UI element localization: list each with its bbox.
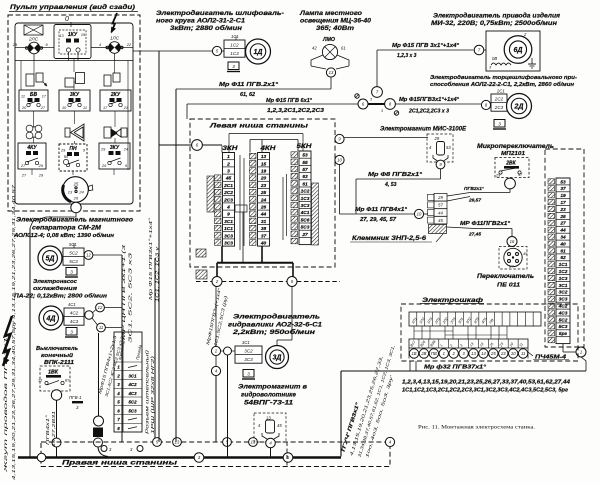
left bus wire — [29, 228, 31, 457]
svg-text:44: 44 — [559, 228, 566, 234]
lamp symbol — [322, 44, 337, 59]
junction below 1VK — [51, 390, 61, 400]
svg-text:1С2: 1С2 — [301, 189, 310, 195]
relay 3KU — [59, 90, 90, 111]
node 4edge — [385, 437, 394, 446]
svg-text:3: 3 — [381, 109, 383, 113]
svg-text:26: 26 — [260, 205, 267, 211]
svg-text:Левая ниша станины: Левая ниша станины — [209, 123, 309, 130]
svg-text:3КУ: 3КУ — [70, 92, 80, 98]
svg-text:способления АОЛ2-22-2-С1, 2,: способления АОЛ2-22-2-С1, 2,2кВт, 2860 о… — [430, 81, 575, 88]
svg-text:1С3: 1С3 — [230, 51, 239, 56]
svg-text:10: 10 — [337, 158, 342, 163]
svg-text:Электрошкаф: Электрошкаф — [422, 297, 483, 304]
svg-text:53: 53 — [446, 145, 451, 150]
svg-text:3С3: 3С3 — [301, 203, 310, 209]
svg-text:3: 3 — [370, 98, 372, 102]
bottom niche dashed box (Pravaya nisha) — [41, 442, 390, 467]
svg-text:27: 27 — [559, 221, 566, 227]
svg-text:ПЕ 011: ПЕ 011 — [497, 283, 520, 289]
horn symbol — [65, 128, 70, 137]
svg-text:25: 25 — [73, 182, 79, 187]
ground 2D — [493, 120, 506, 130]
tap — [101, 446, 107, 452]
svg-text:1: 1 — [580, 350, 582, 355]
svg-text:Электронасос: Электронасос — [33, 279, 78, 285]
cable direction arrow left edge — [3, 316, 12, 366]
svg-text:61: 61 — [341, 46, 346, 51]
svg-text:1С1: 1С1 — [559, 262, 568, 268]
svg-text:29: 29 — [38, 164, 44, 168]
svg-text:27: 27 — [21, 174, 27, 178]
node 4b — [266, 438, 276, 448]
svg-text:27: 27 — [301, 232, 308, 238]
wire 7 up — [376, 50, 378, 87]
ground 1D — [227, 62, 240, 72]
electromagnet MIS symbol — [427, 134, 453, 162]
wire node10 down — [339, 165, 341, 214]
svg-text:4С3: 4С3 — [127, 391, 137, 396]
node 16 — [507, 237, 517, 247]
svg-text:26: 26 — [73, 196, 79, 201]
node 10 — [335, 155, 344, 164]
svg-text:4: 4 — [226, 205, 230, 211]
svg-text:3С1: 3С1 — [242, 340, 250, 345]
svg-text:54ВПГ-73-11: 54ВПГ-73-11 — [244, 401, 294, 407]
svg-text:53: 53 — [560, 179, 566, 185]
svg-text:27, 29, 45, 57: 27, 29, 45, 57 — [359, 217, 397, 223]
svg-text:1: 1 — [443, 351, 445, 356]
svg-text:1,2,3 х 3: 1,2,3 х 3 — [397, 53, 417, 59]
svg-text:ПВ: ПВ — [431, 351, 437, 356]
svg-text:3С3: 3С3 — [224, 241, 233, 247]
node 8 — [385, 99, 396, 110]
svg-text:42: 42 — [312, 46, 317, 51]
motor 4D — [39, 306, 63, 330]
svg-text:3: 3 — [232, 64, 235, 69]
svg-text:гидроволотнике: гидроволотнике — [241, 393, 297, 399]
hatched connectors on left edge — [196, 249, 206, 257]
motor 6D box — [486, 31, 540, 71]
svg-text:22: 22 — [126, 43, 132, 47]
svg-text:20: 20 — [21, 106, 27, 110]
svg-text:Лампа местного: Лампа местного — [299, 10, 362, 17]
lamp 2LS — [24, 25, 43, 35]
svg-text:МП2101: МП2101 — [501, 151, 525, 157]
svg-text:Мр Ф15 ПГВ 6х1°: Мр Ф15 ПГВ 6х1° — [266, 98, 313, 104]
motor 1D — [224, 40, 245, 57]
svg-text:4С1: 4С1 — [300, 210, 310, 216]
svg-text:29: 29 — [100, 148, 106, 152]
node 2 — [212, 277, 222, 287]
svg-text:57: 57 — [302, 167, 308, 173]
svg-text:1ВК: 1ВК — [48, 370, 59, 376]
cable wire 2 — [187, 103, 358, 105]
svg-text:Розъем штепсельный: Розъем штепсельный — [145, 349, 150, 434]
svg-text:2С1: 2С1 — [223, 183, 233, 189]
svg-text:10: 10 — [417, 212, 422, 217]
svg-text:4, 53: 4, 53 — [384, 182, 397, 188]
junction 3D — [224, 347, 232, 355]
panel connector circle — [63, 177, 89, 203]
svg-text:3КН: 3КН — [223, 146, 239, 152]
svg-text:МР Ф11ПГВ2х1°: МР Ф11ПГВ2х1° — [460, 221, 511, 227]
svg-text:62: 62 — [560, 255, 566, 261]
svg-text:63: 63 — [302, 174, 308, 180]
svg-text:3С2: 3С2 — [559, 290, 568, 296]
control panel dashed border — [8, 15, 140, 211]
svg-text:21: 21 — [123, 106, 128, 110]
wire to MIS — [344, 137, 428, 139]
svg-text:17: 17 — [560, 200, 566, 206]
svg-text:34: 34 — [560, 235, 566, 241]
svg-text:23: 23 — [260, 183, 267, 189]
wire panel to 1D — [133, 50, 212, 52]
svg-text:4Д: 4Д — [46, 316, 56, 323]
left niche dashed box (Levaya nisha) — [190, 119, 335, 267]
svg-text:3кВт; 2880 об/мин: 3кВт; 2880 об/мин — [170, 25, 242, 32]
svg-text:25: 25 — [260, 190, 267, 196]
svg-text:АОЛ012-4; 0,08 кВт; 1390 об/ми: АОЛ012-4; 0,08 кВт; 1390 об/мин — [13, 232, 115, 239]
svg-text:0: 0 — [65, 16, 69, 23]
panel bus wire — [15, 60, 133, 62]
svg-text:ПГВ4х1°: ПГВ4х1° — [45, 414, 50, 445]
svg-text:3: 3 — [70, 269, 73, 274]
svg-text:19: 19 — [261, 169, 267, 175]
svg-text:1С1: 1С1 — [224, 226, 233, 232]
svg-text:1С3: 1С3 — [559, 276, 568, 282]
svg-text:Электродвигатель привода издел: Электродвигатель привода изделия — [433, 13, 560, 20]
ground wire 3D down — [227, 355, 229, 457]
svg-text:1С1: 1С1 — [231, 34, 239, 39]
svg-text:29: 29 — [60, 149, 66, 153]
svg-text:Электромагнит в: Электромагнит в — [238, 384, 307, 391]
node 11 — [97, 323, 106, 332]
svg-text:3С2: 3С2 — [244, 348, 253, 353]
svg-text:5С3: 5С3 — [69, 259, 78, 264]
wire down from 1VK — [56, 400, 58, 438]
node 6 — [192, 140, 203, 151]
svg-text:Мр Ф15ПГВ3х1°+1х4°: Мр Ф15ПГВ3х1°+1х4° — [399, 97, 460, 103]
svg-text:45: 45 — [225, 176, 232, 182]
svg-text:25: 25 — [559, 214, 566, 220]
svg-text:0В: 0В — [492, 56, 497, 61]
svg-text:охлаждения: охлаждения — [33, 286, 78, 292]
svg-text:45: 45 — [277, 423, 282, 428]
motor 3D — [235, 346, 262, 363]
wire node12 down — [93, 254, 122, 256]
svg-text:12: 12 — [86, 253, 91, 258]
svg-text:25: 25 — [490, 351, 496, 356]
svg-text:4С3: 4С3 — [558, 310, 568, 316]
svg-text:10: 10 — [511, 351, 516, 356]
svg-text:27: 27 — [40, 106, 46, 110]
control panel inner frame — [15, 23, 133, 204]
terminal strip 4KN — [250, 153, 270, 247]
svg-text:4С3: 4С3 — [70, 319, 79, 324]
node 5b — [283, 453, 293, 463]
svg-text:5рг: 5рг — [559, 331, 568, 337]
svg-text:37: 37 — [560, 186, 566, 192]
svg-text:4С1: 4С1 — [68, 302, 76, 307]
panel wires verticals — [20, 61, 22, 91]
ground 3D — [242, 370, 255, 380]
svg-text:5С3: 5С3 — [128, 408, 137, 413]
connector block — [93, 428, 103, 438]
node 12 — [84, 251, 93, 260]
svg-text:2,2кВт; 950об/мин: 2,2кВт; 950об/мин — [232, 329, 316, 336]
svg-text:53: 53 — [302, 153, 308, 159]
svg-text:1ЛС: 1ЛС — [110, 36, 120, 41]
connector table (plug 1RSh) — [114, 332, 142, 432]
svg-text:29: 29 — [495, 174, 501, 178]
svg-text:4С2: 4С2 — [70, 310, 79, 315]
node 5a — [212, 46, 221, 55]
niche top connections — [221, 146, 223, 153]
svg-text:Электродвигатель торцешлифовал: Электродвигатель торцешлифовального при- — [430, 74, 577, 81]
niche inner thick bus — [217, 262, 293, 264]
svg-text:2С3: 2С3 — [223, 197, 233, 203]
svg-text:5С3: 5С3 — [559, 324, 568, 330]
svg-text:23: 23 — [559, 207, 566, 213]
svg-text:1С1,1С2,1С3,2С1,2С2,2С3,3С1,3С: 1С1,1С2,1С3,2С1,2С2,2С3,3С1,3С2,3С3,4С2,… — [402, 388, 568, 394]
svg-text:3С1, 5С2, 5С3 х3: 3С1, 5С2, 5С3 х3 — [128, 252, 133, 343]
svg-text:1Д: 1Д — [254, 49, 263, 56]
relay 3KU2 — [99, 143, 130, 169]
svg-text:2Д: 2Д — [514, 104, 524, 111]
svg-text:3С1: 3С1 — [559, 283, 568, 289]
node 1r — [576, 347, 586, 357]
svg-text:1С2: 1С2 — [559, 269, 568, 275]
junction — [94, 416, 104, 426]
junction below 2VK — [505, 178, 516, 189]
svg-text:1С2: 1С2 — [230, 42, 239, 47]
svg-text:5С1: 5С1 — [69, 242, 77, 247]
terminal strip 5KN — [291, 151, 311, 245]
svg-text:3КУ: 3КУ — [110, 145, 120, 151]
svg-text:11: 11 — [21, 95, 25, 99]
svg-text:365; 40Вт: 365; 40Вт — [316, 25, 355, 32]
node 7b — [474, 45, 484, 55]
svg-text:29: 29 — [38, 174, 44, 178]
svg-text:5КН: 5КН — [297, 144, 313, 150]
svg-text:37: 37 — [261, 233, 267, 239]
svg-text:15: 15 — [261, 161, 267, 167]
outer dashed line — [196, 281, 212, 283]
svg-text:1,2,3,4,13,15,19,20,21,23,25,2: 1,2,3,4,13,15,19,20,21,23,25,26,27,33,37… — [402, 380, 571, 386]
svg-text:11: 11 — [83, 106, 87, 110]
svg-text:Выключатель: Выключатель — [36, 346, 79, 352]
svg-text:Электродвигатель магнитного: Электродвигатель магнитного — [16, 218, 133, 224]
svg-text:2ЛС: 2ЛС — [28, 37, 39, 42]
svg-text:сепаратора СМ-2М: сепаратора СМ-2М — [32, 226, 102, 232]
svg-text:4: 4 — [99, 43, 101, 47]
svg-text:13: 13 — [175, 440, 180, 445]
dashed segment — [286, 442, 288, 466]
cable Mr F32 — [341, 370, 586, 372]
svg-text:5С2: 5С2 — [559, 317, 568, 323]
svg-text:38: 38 — [261, 226, 267, 232]
svg-text:Мр ф32 ПГВ37х1°: Мр ф32 ПГВ37х1° — [424, 364, 487, 371]
electric cabinet dashed box (Elektroshkaf) — [401, 304, 578, 361]
node 3 — [194, 453, 204, 463]
valve symbol — [104, 127, 111, 138]
wires klemmnik to right — [447, 193, 510, 197]
svg-text:11: 11 — [521, 351, 525, 356]
svg-text:ного круга АОЛ2-31-2-С1: ного круга АОЛ2-31-2-С1 — [156, 18, 246, 25]
svg-text:13: 13 — [471, 351, 476, 356]
svg-text:Рис. 11. Монтажная электросхем: Рис. 11. Монтажная электросхема станка. — [418, 425, 535, 431]
svg-text:2С2: 2С2 — [223, 190, 233, 196]
svg-text:Мр Ф11 ПГВ.2х1°: Мр Ф11 ПГВ.2х1° — [219, 82, 279, 88]
svg-text:24: 24 — [123, 148, 128, 152]
svg-text:13: 13 — [251, 440, 256, 445]
terminal strip 3KN — [215, 153, 235, 247]
connector stem — [71, 202, 81, 212]
long vertical wire — [158, 51, 160, 442]
relay PN — [59, 144, 87, 171]
lamp 1LS with arrow — [112, 13, 118, 32]
svg-text:3С1: 3С1 — [128, 373, 137, 378]
svg-text:3Д: 3Д — [273, 355, 282, 362]
svg-text:9: 9 — [227, 212, 230, 218]
svg-text:61: 61 — [302, 181, 308, 187]
svg-text:2С1: 2С1 — [496, 89, 505, 94]
svg-text:40: 40 — [260, 241, 267, 247]
node 10b — [414, 209, 423, 218]
cabinet interconnect wires — [413, 326, 415, 339]
wire bundle MRF15 to plug — [97, 334, 118, 394]
svg-text:57: 57 — [438, 203, 443, 208]
node 7 — [372, 87, 383, 98]
svg-text:1В: 1В — [411, 351, 416, 356]
svg-text:конечный: конечный — [41, 352, 74, 359]
svg-text:5С3: 5С3 — [301, 225, 310, 231]
svg-text:Мр Ф15 ПГВ3х1°+1х4°: Мр Ф15 ПГВ3х1°+1х4° — [148, 218, 153, 300]
svg-text:1КУ: 1КУ — [68, 32, 78, 38]
wire node2 to 2b — [215, 286, 217, 346]
svg-text:3С1: 3С1 — [224, 219, 233, 225]
extra hatch 3KN — [207, 176, 214, 212]
svg-text:29: 29 — [437, 195, 443, 200]
svg-text:2С1,2С2,2С3 х 3: 2С1,2С2,2С3 х 3 — [408, 109, 449, 115]
ground 4D — [65, 328, 78, 338]
svg-text:2С3: 2С3 — [494, 105, 504, 110]
cable label TGU rotated — [340, 401, 361, 454]
right dashed box — [545, 149, 584, 347]
node 13c — [249, 438, 258, 447]
relay 4KU — [18, 143, 46, 169]
node 13b — [173, 438, 182, 447]
svg-text:ПГВ-1: ПГВ-1 — [69, 395, 82, 400]
svg-text:61, 62: 61, 62 — [240, 92, 255, 98]
wire panel to left bus — [30, 213, 76, 228]
svg-text:27: 27 — [20, 164, 26, 168]
cabinet top strip — [409, 312, 541, 326]
terminal block ZNP-2,5-6 — [428, 194, 448, 234]
svg-text:13: 13 — [68, 190, 73, 195]
svg-text:5Д: 5Д — [46, 256, 55, 263]
svg-text:Электродвигатель шлифоваль-: Электродвигатель шлифоваль- — [156, 10, 284, 17]
svg-text:27,45: 27,45 — [468, 232, 481, 238]
svg-text:ЛМО: ЛМО — [322, 37, 335, 43]
svg-text:40: 40 — [559, 241, 566, 247]
wire 8 to 2D — [395, 103, 481, 105]
node 2b — [211, 346, 220, 355]
svg-text:2С2: 2С2 — [494, 96, 504, 101]
relay BV — [19, 90, 48, 111]
parallel harness wire — [154, 258, 156, 442]
svg-text:освещения МЦ-36-40: освещения МЦ-36-40 — [300, 18, 372, 25]
svg-text:3С3: 3С3 — [224, 233, 233, 239]
svg-text:М: М — [64, 154, 68, 159]
svg-text:24: 24 — [260, 197, 267, 203]
button 1KU — [54, 25, 91, 59]
cabinet bottom strip — [409, 339, 528, 348]
svg-text:3: 3 — [498, 121, 501, 126]
svg-text:45: 45 — [438, 218, 443, 223]
svg-text:Клеммник ЗНП-2,5-6: Клеммник ЗНП-2,5-6 — [352, 236, 427, 242]
svg-text:1: 1 — [227, 154, 230, 160]
svg-text:2КУ: 2КУ — [110, 92, 121, 98]
cabinet circle row — [409, 349, 418, 358]
svg-text:Электромагнит МИС-3100Е: Электромагнит МИС-3100Е — [380, 126, 467, 133]
svg-text:11: 11 — [99, 325, 103, 330]
svg-text:24: 24 — [78, 190, 84, 195]
ground 6D — [531, 58, 533, 64]
svg-text:31: 31 — [261, 219, 267, 225]
svg-text:4КУ: 4КУ — [26, 145, 37, 151]
svg-text:2: 2 — [226, 161, 230, 167]
junction2 — [94, 438, 103, 447]
svg-text:Мр Ф11 ПГВ4х1°: Мр Ф11 ПГВ4х1° — [355, 207, 408, 213]
svg-text:61: 61 — [560, 248, 566, 254]
node 4 — [211, 366, 220, 375]
right terminal strip — [548, 178, 570, 344]
svg-text:5С2: 5С2 — [69, 250, 78, 255]
svg-text:Правая ниша станины: Правая ниша станины — [62, 460, 178, 467]
svg-text:Переключатель: Переключатель — [477, 274, 535, 280]
svg-text:3: 3 — [70, 329, 73, 334]
svg-text:Мр Ф15 ПГВ 3х1°+1х4°: Мр Ф15 ПГВ 3х1°+1х4° — [392, 43, 460, 49]
svg-text:МИ-32, 220В; 0,75кВт; 2500об: МИ-32, 220В; 0,75кВт; 2500об/мин — [431, 20, 557, 27]
svg-text:ПН: ПН — [69, 146, 77, 152]
svg-text:5С2: 5С2 — [128, 400, 137, 405]
svg-text:1С3: 1С3 — [301, 196, 310, 202]
svg-text:44: 44 — [260, 212, 267, 218]
svg-text:Мр Ф8 ПГВ2х1°: Мр Ф8 ПГВ2х1° — [368, 172, 423, 178]
svg-text:16: 16 — [510, 239, 515, 244]
svg-text:гидравлики АО2-32-6-С1: гидравлики АО2-32-6-С1 — [228, 323, 323, 329]
svg-text:13: 13 — [329, 70, 334, 75]
svg-text:29: 29 — [434, 136, 440, 141]
svg-text:44: 44 — [438, 210, 443, 215]
svg-text:3: 3 — [247, 371, 250, 376]
svg-text:1,2,3,2С1,2С2,2С3: 1,2,3,2С1,2С2,2С3 — [267, 108, 324, 114]
node 9 — [335, 134, 344, 143]
bus junction left — [37, 453, 45, 461]
svg-text:5С6: 5С6 — [301, 217, 310, 223]
svg-text:29,57: 29,57 — [468, 198, 481, 204]
node 12b — [96, 303, 105, 312]
svg-text:ПА-22; 0,12кВт; 2800 об/мин: ПА-22; 0,12кВт; 2800 об/мин — [14, 293, 108, 300]
relay 2KU — [100, 90, 131, 111]
extra hatch 5KN right — [312, 183, 319, 245]
svg-text:3: 3 — [227, 169, 230, 175]
node 5c — [223, 438, 232, 447]
svg-text:23: 23 — [500, 351, 506, 356]
svg-text:29: 29 — [101, 164, 107, 168]
